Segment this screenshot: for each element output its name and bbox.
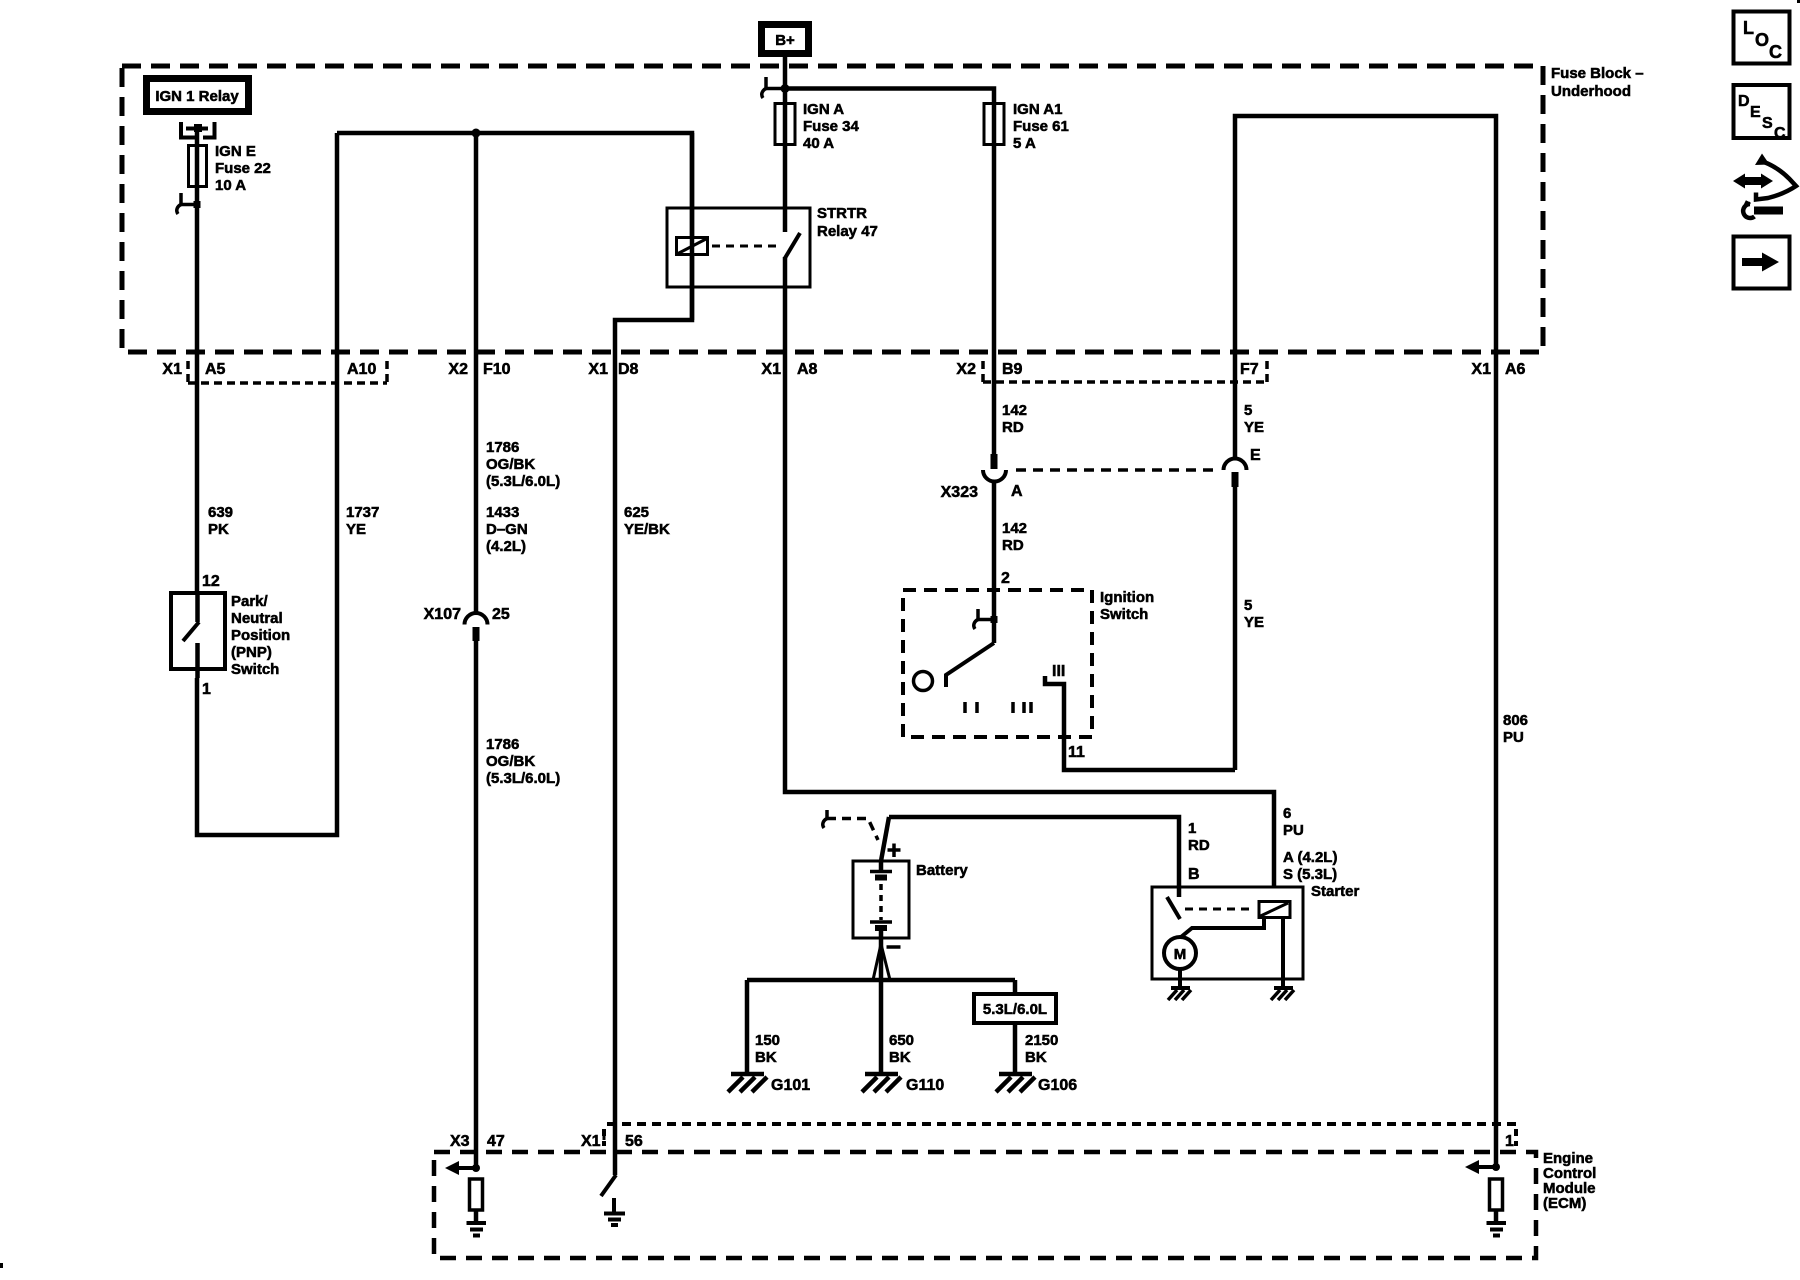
svg-text:A: A: [1011, 483, 1023, 500]
svg-text:STRTR: STRTR: [817, 205, 867, 222]
label: STRTR Relay 47: [817, 205, 878, 240]
svg-text:BK: BK: [1025, 1049, 1047, 1066]
fuse IGN A Fuse 34 (40 A): [775, 103, 795, 232]
svg-text:BK: BK: [889, 1049, 911, 1066]
label: pin E: [1250, 447, 1261, 464]
ignition switch dashed box: [903, 590, 1092, 737]
label: wire 5 YE lower: [1244, 597, 1264, 631]
svg-text:Fuse 61: Fuse 61: [1013, 118, 1069, 135]
in-line connector X107 pin 25: [465, 613, 488, 641]
battery cells symbol: [870, 861, 892, 938]
svg-text:A (4.2L): A (4.2L): [1283, 849, 1337, 866]
svg-text:PU: PU: [1283, 822, 1304, 839]
svg-text:D: D: [1738, 93, 1750, 110]
svg-text:2150: 2150: [1025, 1032, 1058, 1049]
svg-text:PU: PU: [1503, 729, 1524, 746]
svg-text:(ECM): (ECM): [1543, 1195, 1586, 1212]
svg-text:806: 806: [1503, 712, 1528, 729]
svg-text:B9: B9: [1002, 361, 1023, 378]
wire: PNP pin 1 loop up to A10: [197, 133, 337, 835]
svg-text:11: 11: [1068, 744, 1085, 761]
fuse block underhood dashed box: [122, 66, 1543, 352]
engine size tag box 5.3L/6.0L: [974, 994, 1056, 1023]
wire: motor feed from contact: [1181, 917, 1264, 937]
starter motor ground: [1168, 988, 1191, 1000]
svg-text:Switch: Switch: [1100, 606, 1148, 623]
svg-text:X3: X3: [450, 1133, 470, 1150]
ground bus wire: [747, 978, 1015, 983]
svg-text:5: 5: [1244, 597, 1252, 614]
wire: A8 starter relay output to starter S: [785, 352, 1274, 887]
svg-text:RD: RD: [1002, 419, 1024, 436]
connector label X2 | F10: [448, 361, 510, 378]
in-line connector E: [1224, 459, 1247, 487]
ECM pin 1 internal resistor element: [1490, 1179, 1503, 1222]
svg-text:X2: X2: [448, 361, 468, 378]
svg-text:Ignition: Ignition: [1100, 589, 1154, 606]
battery box: [853, 861, 909, 938]
dashed harness link X323 to E: [1016, 468, 1220, 472]
label: pin 2: [1001, 570, 1010, 587]
park/neutral position switch box: [171, 593, 225, 678]
svg-text:(5.3L/6.0L): (5.3L/6.0L): [486, 473, 560, 490]
in-line connector X323 pin A: [983, 454, 1006, 482]
svg-text:Park/: Park/: [231, 593, 269, 610]
svg-text:S (5.3L): S (5.3L): [1283, 866, 1337, 883]
label: wire 1433 D-GN (4.2L): [486, 504, 528, 555]
label: IGN A1 Fuse 61 5 A: [1013, 101, 1069, 152]
svg-text:YE: YE: [1244, 614, 1264, 631]
svg-text:PK: PK: [208, 521, 229, 538]
wire 150 BK branch to G101: [745, 980, 750, 1073]
ECM pin 56 internal switch blade: [601, 1175, 616, 1196]
splice clip at B+ node: [762, 77, 790, 98]
svg-text:Fuse 22: Fuse 22: [215, 160, 271, 177]
ECM pin 1 internal signal arrow: [1465, 1160, 1500, 1174]
fuse IGN A1 Fuse 61 (5 A): [984, 103, 1004, 145]
connector label X1 | 56: [581, 1133, 643, 1150]
wire: solenoid coil to ground: [1281, 918, 1285, 988]
svg-text:625: 625: [624, 504, 649, 521]
label: terminal B: [1188, 866, 1200, 883]
wire: motor to ground: [1178, 969, 1182, 988]
svg-text:1786: 1786: [486, 736, 519, 753]
connector label X1 | A5: [162, 361, 225, 382]
svg-text:(5.3L/6.0L): (5.3L/6.0L): [486, 770, 560, 787]
svg-text:Battery: Battery: [916, 862, 968, 879]
svg-text:650: 650: [889, 1032, 914, 1049]
label: G101: [771, 1077, 810, 1094]
svg-text:X1: X1: [588, 361, 608, 378]
svg-text:E: E: [1750, 104, 1761, 121]
B+ battery feed box: [762, 25, 809, 54]
svg-text:1: 1: [1188, 820, 1196, 837]
svg-text:Underhood: Underhood: [1551, 83, 1631, 100]
svg-text:1: 1: [202, 681, 211, 698]
wire: fuse block internal bus A10 to D8: [337, 133, 692, 352]
wire 639 PK : fuse 22 to PNP switch pin 12: [195, 204, 200, 593]
label: wire 1786 OG/BK (5.3L/6.0L) lower: [486, 736, 560, 787]
label: X323 A: [941, 483, 1023, 501]
label: wire 639 PK: [208, 504, 233, 538]
svg-text:A5: A5: [205, 361, 226, 378]
splice clip at battery positive feed: [823, 810, 827, 828]
label: wire 2150 BK: [1025, 1032, 1058, 1066]
icon: DESC reference box: [1734, 85, 1790, 142]
battery minus marker: [887, 945, 901, 949]
label: pin 1: [202, 681, 211, 698]
wire 142 RD from B9 to X323: [992, 145, 997, 456]
label: X107 25: [424, 606, 510, 623]
wire 5 YE from F7 to connector E: [1233, 352, 1238, 459]
ECM pin 47 internal signal arrow: [445, 1161, 480, 1175]
starter box: [1152, 887, 1303, 979]
label: IGN E Fuse 22 10 A: [215, 143, 271, 194]
ECM pin 56 internal ground: [604, 1198, 625, 1225]
STRTR relay coil: [677, 133, 708, 320]
label: IGN A Fuse 34 40 A: [803, 101, 860, 152]
svg-text:G110: G110: [906, 1077, 944, 1094]
svg-text:5.3L/6.0L: 5.3L/6.0L: [983, 1001, 1047, 1018]
starter solenoid ground: [1271, 988, 1294, 1000]
label: wire 1737 YE: [346, 504, 379, 538]
svg-text:C: C: [1774, 125, 1786, 142]
position III contact and wire to terminal 11: [1045, 676, 1235, 770]
battery plus marker: [888, 844, 901, 858]
label: Engine Control Module (ECM): [1543, 1150, 1596, 1212]
label: G106: [1038, 1077, 1077, 1094]
label: Starter: [1311, 883, 1360, 900]
junction node at F10 tap: [472, 129, 481, 138]
label: wire 142 RD upper: [1002, 402, 1027, 436]
svg-text:Neutral: Neutral: [231, 610, 283, 627]
wire: battery negative splice to ground bus: [873, 938, 890, 1073]
label: wire 150 BK: [755, 1032, 780, 1066]
connector label 1: [1505, 1133, 1514, 1150]
wire: bus from B+ node to fuse IGN A1: [785, 89, 994, 104]
svg-text:1737: 1737: [346, 504, 379, 521]
svg-text:Position: Position: [231, 627, 290, 644]
svg-text:OG/BK: OG/BK: [486, 456, 535, 473]
svg-text:142: 142: [1002, 402, 1027, 419]
connector label X3 | 47: [450, 1133, 505, 1150]
svg-text:IGN A1: IGN A1: [1013, 101, 1062, 118]
svg-text:5 A: 5 A: [1013, 135, 1036, 152]
ECM pin 1 internal ground: [1487, 1223, 1507, 1236]
svg-text:Switch: Switch: [231, 661, 279, 678]
ground G101: [728, 1074, 767, 1092]
splice clip below fuse 22: [177, 193, 201, 214]
svg-text:47: 47: [487, 1133, 505, 1150]
svg-text:1: 1: [1505, 1133, 1514, 1150]
svg-text:X1: X1: [1471, 361, 1491, 378]
svg-text:142: 142: [1002, 520, 1027, 537]
svg-text:(4.2L): (4.2L): [486, 538, 526, 555]
svg-text:E: E: [1250, 447, 1261, 464]
ECM connector X1 dashed bracket: [604, 1124, 1516, 1146]
svg-text:6: 6: [1283, 805, 1291, 822]
connector label X1 | A6: [1471, 361, 1525, 378]
svg-text:1433: 1433: [486, 504, 519, 521]
engine control module dashed box: [434, 1152, 1536, 1258]
svg-text:D8: D8: [618, 361, 639, 378]
svg-text:G106: G106: [1038, 1077, 1077, 1094]
svg-text:10 A: 10 A: [215, 177, 246, 194]
starter motor M: [1164, 937, 1196, 969]
label: position III: [1052, 663, 1065, 680]
wire: fuse block jumper F7 to A6: [1235, 116, 1496, 352]
svg-text:(PNP): (PNP): [231, 644, 272, 661]
connector label F7: [1240, 361, 1259, 378]
STRTR relay switch contact: [785, 233, 800, 352]
svg-text:M: M: [1174, 946, 1187, 963]
STRTR relay actuating dashed link: [712, 245, 778, 248]
svg-text:5: 5: [1244, 402, 1252, 419]
svg-text:X323: X323: [941, 484, 978, 501]
svg-text:III: III: [1052, 663, 1065, 680]
wire 5 YE from E to ignition switch terminal 11: [1233, 487, 1238, 770]
fuse IGN E Fuse 22 (10 A): [189, 146, 207, 205]
svg-text:2: 2: [1001, 570, 1010, 587]
dashed lead from clip to battery positive: [827, 819, 878, 841]
label: wire 806 PU: [1503, 712, 1528, 746]
label: wire 1 RD: [1188, 820, 1210, 854]
connector label A10: [347, 361, 376, 378]
svg-text:12: 12: [202, 573, 220, 590]
svg-text:B+: B+: [775, 32, 795, 49]
label: G110: [906, 1077, 944, 1094]
connector label X2 | B9: [956, 361, 1022, 382]
wire 1786 OG/BK down F10 to connector X107: [474, 133, 479, 613]
icon: harness routing squiggle with arrows: [1733, 154, 1796, 218]
svg-text:F10: F10: [483, 361, 511, 378]
svg-text:IGN A: IGN A: [803, 101, 844, 118]
starter solenoid switch contact: [1167, 897, 1180, 919]
connector X2 pin-group dashed bracket B9..F7: [983, 361, 1267, 382]
label: terminal 11: [1068, 744, 1085, 761]
svg-text:25: 25: [492, 606, 510, 623]
svg-text:YE: YE: [1244, 419, 1264, 436]
svg-text:A6: A6: [1505, 361, 1526, 378]
starter solenoid coil: [1259, 902, 1290, 918]
wire 142 RD to ignition switch pin 2: [992, 482, 997, 619]
label: starter terminals A (4.2L) S (5.3L): [1283, 849, 1337, 883]
label: wire 6 PU: [1283, 805, 1304, 839]
svg-text:X1: X1: [761, 361, 781, 378]
svg-text:G101: G101: [771, 1077, 810, 1094]
svg-text:O: O: [1755, 30, 1769, 50]
label: Park/Neutral Position (PNP) Switch: [231, 593, 290, 678]
label: wire 625 YE/BK: [624, 504, 670, 538]
key position I II tick marks: [965, 702, 1031, 713]
connector label X1 | A8: [761, 361, 817, 378]
ignition switch contact blade: [946, 619, 994, 687]
starter solenoid dashed link: [1185, 908, 1255, 911]
svg-text:A10: A10: [347, 361, 376, 378]
svg-text:X2: X2: [956, 361, 976, 378]
svg-text:A8: A8: [797, 361, 818, 378]
connector label X1 | D8: [588, 361, 638, 378]
ECM pin 47 internal ground: [467, 1223, 487, 1236]
svg-text:D–GN: D–GN: [486, 521, 528, 538]
svg-text:Fuse Block –: Fuse Block –: [1551, 65, 1644, 82]
svg-text:IGN 1 Relay: IGN 1 Relay: [155, 88, 239, 105]
svg-text:BK: BK: [755, 1049, 777, 1066]
svg-text:X1: X1: [162, 361, 182, 378]
svg-text:YE: YE: [346, 521, 366, 538]
svg-text:Starter: Starter: [1311, 883, 1360, 900]
label: wire 5 YE upper: [1244, 402, 1264, 436]
wire: relay contact to fuse IGN E: [195, 128, 200, 146]
svg-text:RD: RD: [1188, 837, 1210, 854]
svg-text:1786: 1786: [486, 439, 519, 456]
STRTR Relay 47 box: [667, 208, 810, 287]
svg-text:X107: X107: [424, 606, 461, 623]
ignition switch wiper pole: [914, 672, 933, 691]
ground G106: [996, 1074, 1035, 1092]
IGN 1 relay contact terminal symbol: [181, 122, 215, 138]
label: Ignition Switch: [1100, 589, 1154, 623]
IGN 1 Relay label box: [147, 79, 249, 112]
wire: B+ into fuse block: [783, 57, 788, 103]
svg-text:Relay 47: Relay 47: [817, 223, 878, 240]
label: Battery: [916, 862, 968, 879]
svg-text:F7: F7: [1240, 361, 1259, 378]
wire 625 YE/BK down D8 to ECM pin 56: [613, 352, 618, 1175]
svg-text:YE/BK: YE/BK: [624, 521, 670, 538]
connector X1 pin-group dashed bracket A5..A10: [188, 361, 387, 383]
label: Fuse Block - Underhood: [1551, 65, 1644, 100]
wire: battery positive to starter B terminal (1 RD): [881, 817, 1179, 897]
label: wire 650 BK: [889, 1032, 914, 1066]
svg-text:40 A: 40 A: [803, 135, 834, 152]
svg-text:X1: X1: [581, 1133, 601, 1150]
svg-text:56: 56: [625, 1133, 643, 1150]
svg-text:RD: RD: [1002, 537, 1024, 554]
wire 1786 OG/BK to ECM pin 47: [474, 641, 479, 1168]
label: wire 1786 OG/BK (5.3L/6.0L): [486, 439, 560, 490]
label: pin 12: [202, 573, 220, 590]
wire 2150 BK branch through 5.3L/6.0L tag to G106: [1013, 980, 1018, 1073]
icon: LOC reference box: [1734, 12, 1790, 64]
ECM pin 47 internal resistor element: [470, 1179, 483, 1222]
svg-text:B: B: [1188, 866, 1200, 883]
svg-text:OG/BK: OG/BK: [486, 753, 535, 770]
ground G110: [862, 1074, 901, 1092]
svg-text:150: 150: [755, 1032, 780, 1049]
svg-text:639: 639: [208, 504, 233, 521]
svg-text:IGN E: IGN E: [215, 143, 256, 160]
svg-text:C: C: [1769, 42, 1782, 62]
wire 806 PU from A6 to ECM pin 1: [1494, 352, 1499, 1167]
label: wire 142 RD lower: [1002, 520, 1027, 554]
svg-text:S: S: [1762, 115, 1773, 132]
svg-text:L: L: [1743, 18, 1754, 38]
svg-text:Fuse 34: Fuse 34: [803, 118, 860, 135]
splice clip at ignition switch input: [974, 609, 998, 629]
icon: continue arrow box: [1734, 237, 1790, 289]
